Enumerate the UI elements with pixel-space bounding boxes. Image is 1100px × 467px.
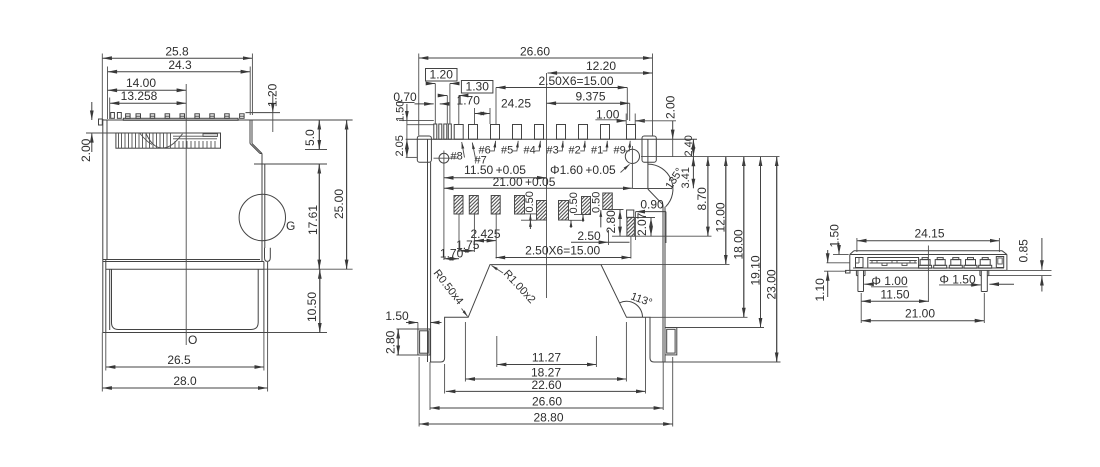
- body top line with projection extension: [102, 119, 352, 121]
- body top line: [406, 138, 697, 140]
- svg-text:O: O: [188, 333, 197, 347]
- thin bars (pins cluster): [434, 124, 452, 139]
- small rect above pad9: [627, 210, 634, 217]
- dim 12.20: [548, 72, 653, 74]
- body outline: [854, 250, 1002, 252]
- svg-text:2.00: 2.00: [664, 95, 678, 119]
- svg-text:1.20: 1.20: [266, 83, 280, 107]
- dim 1.10: [827, 250, 829, 263]
- bottom outline with trapezoid cutout: [430, 265, 665, 362]
- center line: [927, 246, 929, 303]
- dim 14.00: [108, 89, 187, 91]
- svg-text:9.375: 9.375: [575, 89, 605, 103]
- svg-text:1.10: 1.10: [813, 278, 827, 302]
- left ear: [417, 136, 431, 162]
- svg-text:0.50: 0.50: [591, 192, 603, 213]
- svg-text:2.80: 2.80: [604, 210, 618, 234]
- svg-text:12.20: 12.20: [586, 59, 616, 73]
- left wall: [102, 119, 104, 333]
- svg-text:#9: #9: [614, 145, 626, 157]
- left bracket inside: [856, 258, 864, 268]
- nine square tabs: [126, 114, 245, 119]
- svg-text:21.00 +0.05: 21.00 +0.05: [493, 175, 556, 189]
- svg-text:12.00: 12.00: [714, 202, 728, 232]
- dim 2.00 (left view): [91, 102, 93, 120]
- svg-text:22.60: 22.60: [531, 378, 561, 392]
- small tab left outside: [99, 119, 103, 125]
- svg-text:28.80: 28.80: [533, 410, 563, 424]
- right leg: [665, 328, 677, 355]
- left hole: [439, 153, 449, 163]
- dim 1.20 (left view): [272, 94, 274, 113]
- svg-text:#3: #3: [547, 145, 559, 157]
- svg-text:1.70: 1.70: [457, 94, 481, 108]
- svg-text:G: G: [286, 219, 295, 233]
- svg-text:10.50: 10.50: [305, 292, 319, 322]
- svg-text:0.50: 0.50: [568, 192, 580, 213]
- tray step: [103, 259, 260, 261]
- left leg: [418, 329, 430, 355]
- svg-text:1.50: 1.50: [828, 224, 842, 248]
- dim 28.0: [102, 387, 267, 389]
- svg-text:2.05: 2.05: [394, 135, 406, 156]
- dim 24.3: [108, 71, 251, 73]
- tray bottom: [103, 332, 268, 334]
- inner tray rounded: [112, 269, 259, 329]
- dim 2.07: [634, 217, 655, 219]
- G circle: [239, 194, 285, 240]
- right datum line: [641, 156, 780, 158]
- center line: [185, 84, 187, 345]
- dim 1.20 boxed: [426, 69, 458, 82]
- body left edge: [427, 139, 429, 362]
- svg-text:#6: #6: [479, 145, 491, 157]
- top-right corner: edge, 45-deg chamfer and 135-deg annotation arc: [647, 139, 649, 189]
- right hole: [625, 149, 639, 163]
- svg-text:1.00: 1.00: [596, 107, 620, 121]
- svg-text:0.50: 0.50: [524, 191, 536, 212]
- svg-text:25.8: 25.8: [165, 44, 189, 58]
- svg-text:13.258: 13.258: [121, 89, 158, 103]
- svg-text:1.20: 1.20: [430, 68, 454, 82]
- tray walls: [105, 260, 107, 333]
- svg-text:Φ 1.00: Φ 1.00: [871, 274, 908, 288]
- svg-text:R0.50x4: R0.50x4: [431, 267, 466, 307]
- svg-text:0.85: 0.85: [1017, 239, 1031, 263]
- svg-text:Φ 1.50: Φ 1.50: [939, 272, 976, 286]
- svg-text:2.80: 2.80: [384, 330, 398, 354]
- right wall: [251, 120, 253, 144]
- left side 1.50 / 2.05 dims: [399, 119, 434, 121]
- dim 23.00: [776, 157, 778, 362]
- svg-text:2.50X6=15.00: 2.50X6=15.00: [538, 74, 613, 88]
- svg-text:2.50: 2.50: [577, 229, 601, 243]
- dim 2.00 middle: [672, 121, 674, 139]
- left foot: [846, 270, 851, 273]
- chamfer to card edge: [252, 144, 262, 154]
- svg-text:23.00: 23.00: [765, 269, 779, 299]
- svg-text:2.50X6=15.00: 2.50X6=15.00: [525, 244, 600, 258]
- svg-text:24.25: 24.25: [501, 97, 531, 111]
- svg-text:5.0: 5.0: [303, 129, 317, 146]
- svg-text:#8: #8: [451, 151, 463, 163]
- reference lines left: [827, 262, 850, 264]
- svg-text:26.60: 26.60: [532, 394, 562, 408]
- dim 13.258: [110, 102, 187, 104]
- svg-text:2.07: 2.07: [635, 212, 649, 236]
- svg-text:21.00: 21.00: [905, 307, 935, 321]
- hatched pads row: [454, 193, 634, 236]
- dim 1.50 bottom-left: [406, 322, 418, 324]
- dim 26.60 top: [419, 57, 653, 59]
- reference lines right: [1007, 269, 1052, 271]
- dim 5.0: [318, 120, 320, 150]
- svg-text:#4: #4: [524, 145, 536, 157]
- svg-text:17.61: 17.61: [306, 205, 320, 235]
- svg-text:1.50: 1.50: [385, 309, 409, 323]
- contact block: [116, 133, 221, 148]
- svg-text:11.27: 11.27: [532, 351, 561, 365]
- svg-text:8.70: 8.70: [695, 187, 709, 211]
- dim 1.50 right view: [838, 243, 840, 255]
- card top step line (17.61 reference): [254, 163, 327, 165]
- dim 19.10: [760, 157, 762, 328]
- line at 1.20 reference level: [246, 112, 281, 114]
- right ear: [642, 136, 656, 162]
- pin-top reference line left: [407, 124, 434, 126]
- right bracket: [996, 257, 1003, 268]
- card right edge: [261, 154, 263, 262]
- svg-text:Φ1.60 +0.05: Φ1.60 +0.05: [550, 163, 616, 177]
- narrow left tabs: [111, 113, 115, 119]
- card edge rounded bottom tab: [265, 248, 271, 262]
- svg-text:26.60: 26.60: [520, 44, 550, 58]
- svg-text:0.90: 0.90: [640, 198, 664, 212]
- dim 18.00: [743, 157, 745, 318]
- dim 25.8: [102, 57, 252, 59]
- svg-text:18.00: 18.00: [732, 229, 746, 259]
- svg-text:113°: 113°: [629, 291, 654, 310]
- dim 26.5: [106, 366, 264, 368]
- svg-text:2.40: 2.40: [683, 135, 695, 156]
- center line: [546, 73, 548, 298]
- svg-text:1.30: 1.30: [466, 80, 490, 94]
- dim 8.70: [707, 157, 709, 237]
- svg-text:14.00: 14.00: [126, 76, 156, 90]
- svg-text:#2: #2: [569, 145, 581, 157]
- svg-text:11.50: 11.50: [880, 288, 909, 302]
- svg-text:24.3: 24.3: [168, 58, 192, 72]
- contact block: [868, 258, 919, 269]
- svg-text:0.70: 0.70: [393, 90, 417, 104]
- dim 2.80 bottom-left: [397, 328, 418, 330]
- dim 10.50: [319, 269, 321, 332]
- dim 12.00: [725, 157, 727, 265]
- tabs bar under contact tabs: [123, 118, 238, 120]
- nine pins: [454, 125, 635, 140]
- svg-text:25.00: 25.00: [332, 189, 346, 219]
- tray top line with projection to right: [106, 268, 264, 270]
- svg-text:26.5: 26.5: [167, 353, 191, 367]
- svg-text:19.10: 19.10: [749, 255, 763, 285]
- svg-text:24.15: 24.15: [914, 227, 944, 241]
- five hat contacts: [919, 258, 992, 269]
- legs: [856, 270, 988, 291]
- svg-text:28.0: 28.0: [173, 374, 197, 388]
- dim 17.61: [318, 164, 320, 269]
- dim 24.15: [857, 240, 1000, 242]
- svg-text:#1: #1: [591, 145, 603, 157]
- svg-text:#5: #5: [501, 145, 513, 157]
- dim 1.30 boxed: [461, 81, 493, 94]
- dim 0.85: [1041, 238, 1043, 270]
- body right edge: [662, 205, 664, 362]
- dim 2.40 / 3.41 / 135: [692, 139, 694, 156]
- dim 25.00: [346, 120, 348, 269]
- svg-text:R1.00x2: R1.00x2: [501, 268, 538, 306]
- svg-text:2.00: 2.00: [79, 138, 93, 162]
- dim 2.80 pads: [603, 209, 624, 211]
